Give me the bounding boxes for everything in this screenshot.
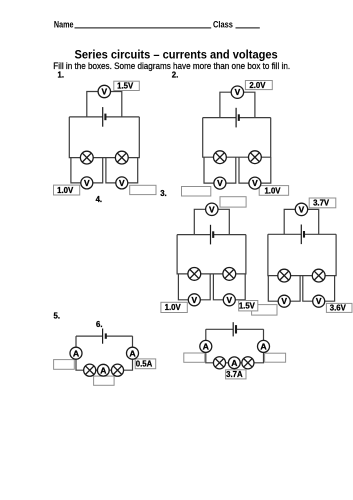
ammeter A6a (left)	[200, 340, 212, 352]
wire: main loop left/bottom/right circuit 1	[69, 117, 139, 158]
wire: top voltmeter loop circuit 1	[87, 92, 122, 117]
value box top (empty) circuit 3	[220, 197, 246, 207]
svg-text:1.: 1.	[58, 71, 65, 80]
ammeter A5c (middle)	[97, 364, 109, 376]
header: name underline	[75, 27, 212, 29]
wire: voltmeter sub-loop under lamp 1 circuit 1	[71, 158, 103, 183]
svg-text:V: V	[235, 87, 241, 97]
wire: voltmeter sub-loop under lamp 2 circuit 3	[213, 274, 245, 300]
lamp L3a	[188, 268, 201, 281]
svg-text:3.: 3.	[160, 189, 167, 198]
battery B4	[300, 225, 302, 245]
wire: top edge segments with battery gap circuit 6	[206, 328, 233, 330]
wire: main loop left/bottom/right circuit 2	[203, 118, 271, 158]
value box top (2.0V) circuit 2	[245, 81, 272, 90]
lamp L4a	[278, 269, 291, 282]
value box top (3.7V) circuit 4	[309, 198, 336, 208]
value box top (1.5V) circuit 1	[114, 81, 140, 90]
header: class underline	[236, 27, 260, 29]
svg-text:V: V	[209, 204, 215, 214]
svg-text:2.: 2.	[172, 71, 179, 80]
svg-text:Fill in the boxes. Some diagra: Fill in the boxes. Some diagrams have mo…	[53, 60, 290, 71]
svg-text:Name: Name	[54, 19, 74, 29]
svg-text:V: V	[84, 178, 90, 188]
wire: voltmeter sub-loop under lamp 2 circuit 1	[106, 158, 138, 183]
value box left (empty) circuit 5	[54, 360, 75, 370]
wire: voltmeter sub-loop under lamp 2 circuit 4	[303, 276, 335, 302]
value box bottom (3.7A) circuit 6	[226, 370, 246, 379]
svg-text:0.5A: 0.5A	[136, 360, 153, 369]
wire: top edge segments with battery gap circuit 3	[177, 234, 210, 236]
lamp L6b	[242, 357, 254, 369]
wire: top edge segments with battery gap circuit 5	[76, 335, 103, 337]
wire: voltmeter sub-loop under lamp 1 circuit 3	[178, 274, 210, 300]
wire: right branch circuit 6	[248, 329, 264, 363]
voltmeter V3c (bottom-right)	[223, 294, 235, 306]
svg-text:1.0V: 1.0V	[165, 303, 182, 312]
value box bottom-left (1.0V) circuit 3	[161, 302, 187, 312]
value box bottom-right (1.5V) circuit 3 (drawn over circuit 4 empty box)	[239, 301, 258, 311]
lamp L6a	[213, 357, 225, 369]
ammeter A5a (left)	[70, 347, 82, 359]
battery B3	[210, 225, 212, 245]
lamp L2b	[249, 151, 262, 164]
ammeter A6c (middle)	[228, 357, 240, 369]
svg-text:Class: Class	[213, 19, 233, 29]
svg-text:A: A	[260, 342, 267, 352]
voltmeter V4a (top)	[295, 203, 307, 215]
lamp L1b	[115, 151, 128, 164]
wire: top voltmeter loop circuit 4	[284, 209, 319, 234]
lamp L1a	[80, 151, 93, 164]
wire: top edge segments with battery gap circuit 4	[268, 233, 301, 235]
wire: left branch circuit 5	[76, 336, 90, 370]
voltmeter V2c (bottom-right)	[249, 177, 261, 189]
svg-text:V: V	[299, 204, 305, 214]
voltmeter V1c (bottom-right)	[116, 177, 128, 189]
value box bottom-right (1.0V) circuit 2	[259, 186, 288, 196]
wire: left branch circuit 6	[206, 329, 220, 363]
voltmeter V3a (top)	[206, 203, 218, 215]
wire: voltmeter sub-loop under lamp 1 circuit 4	[268, 276, 300, 302]
svg-text:5.: 5.	[54, 312, 61, 321]
svg-text:1.5V: 1.5V	[239, 302, 256, 311]
wire: main loop left/bottom/right circuit 4	[268, 234, 336, 275]
lamp L3b	[223, 268, 236, 281]
voltmeter V4c (bottom-right)	[313, 295, 325, 307]
voltmeter V3b (bottom-left)	[188, 294, 200, 306]
wire: main loop left/bottom/right circuit 3	[177, 235, 246, 274]
svg-text:V: V	[119, 178, 125, 188]
wire: voltmeter sub-loop under lamp 2 circuit 2	[239, 157, 271, 183]
ammeter A5b (right)	[127, 347, 139, 359]
wire: right branch circuit 5	[118, 336, 133, 370]
svg-text:4.: 4.	[96, 195, 103, 204]
svg-text:V: V	[316, 296, 322, 306]
wire: voltmeter sub-loop under lamp 1 circuit 2	[204, 157, 236, 183]
value box bottom-left (1.0V) circuit 1	[54, 185, 80, 195]
svg-text:V: V	[281, 296, 287, 306]
svg-text:A: A	[73, 348, 80, 358]
wire: top voltmeter loop circuit 2	[220, 92, 255, 117]
voltmeter V4b (bottom-left)	[278, 295, 290, 307]
svg-text:3.7V: 3.7V	[313, 199, 330, 208]
value box bottom-right (3.6V) circuit 4	[326, 303, 352, 312]
lamp L5a	[84, 364, 96, 376]
voltmeter V2b (bottom-left)	[214, 177, 226, 189]
svg-text:3.6V: 3.6V	[330, 304, 347, 313]
value box left (empty) circuit 6	[184, 353, 205, 362]
svg-text:A: A	[203, 342, 210, 352]
wire: top voltmeter loop circuit 3	[194, 209, 229, 234]
svg-text:2.0V: 2.0V	[249, 81, 266, 90]
svg-text:V: V	[227, 295, 233, 305]
wire: bottom series link circuit 6	[220, 362, 248, 364]
value box right (empty) circuit 6	[265, 353, 286, 362]
value box bottom-left (empty) circuit 2	[182, 187, 211, 197]
wire: top edge segments with battery gap circuit 1	[69, 116, 102, 118]
battery B5	[102, 329, 104, 344]
battery B1	[102, 107, 104, 127]
svg-text:1.5V: 1.5V	[117, 82, 134, 91]
voltmeter V1a (top)	[98, 85, 110, 97]
lamp L4b	[312, 269, 325, 282]
voltmeter V2a (top)	[231, 86, 243, 98]
lamp L5b	[111, 364, 123, 376]
svg-text:V: V	[192, 295, 198, 305]
svg-text:1.0V: 1.0V	[264, 186, 281, 195]
battery B6	[232, 322, 234, 336]
svg-text:6.: 6.	[96, 320, 103, 329]
svg-text:A: A	[129, 348, 136, 358]
wire: bottom series link circuit 5	[90, 369, 118, 371]
battery B2	[235, 108, 237, 128]
svg-text:A: A	[100, 365, 106, 375]
svg-text:V: V	[102, 87, 108, 97]
wire: top edge segments with battery gap circuit 2	[203, 117, 236, 119]
ammeter A6b (right)	[258, 340, 270, 352]
svg-text:V: V	[217, 178, 223, 188]
voltmeter V1b (bottom-left)	[81, 177, 93, 189]
value box bottom-left (empty) circuit 4	[252, 305, 277, 316]
svg-text:V: V	[252, 178, 258, 188]
value box bottom (empty) circuit 5	[94, 376, 115, 385]
svg-text:A: A	[231, 358, 237, 368]
svg-text:1.0V: 1.0V	[57, 186, 74, 195]
lamp L2a	[214, 151, 227, 164]
value box right (0.5A) circuit 5	[135, 359, 156, 369]
value box bottom-right (empty) circuit 1	[130, 185, 156, 194]
svg-text:3.7A: 3.7A	[226, 370, 243, 379]
